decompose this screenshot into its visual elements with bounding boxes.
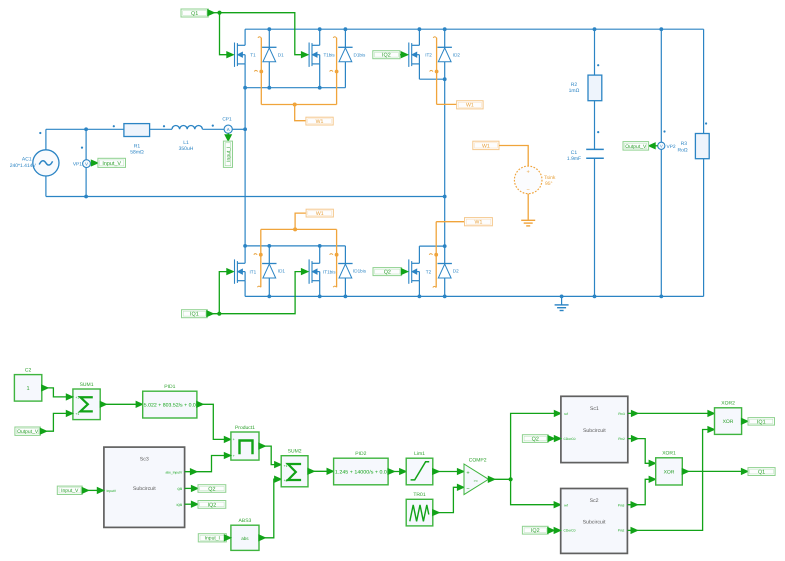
svg-text:W1: W1 <box>482 143 490 149</box>
svg-text:W1: W1 <box>475 220 483 226</box>
svg-text:W1: W1 <box>316 119 324 125</box>
svg-text:W1: W1 <box>316 211 324 217</box>
svg-text:T1bis: T1bis <box>324 53 336 58</box>
svg-text:Subcircuit: Subcircuit <box>583 519 606 525</box>
svg-text:+1: +1 <box>284 464 288 468</box>
svg-text:VP2: VP2 <box>667 144 676 150</box>
svg-text:Sc2: Sc2 <box>590 498 599 504</box>
svg-text:Q1: Q1 <box>758 469 765 475</box>
svg-text:Subcircuit: Subcircuit <box>133 486 156 492</box>
svg-text:ref: ref <box>564 503 568 507</box>
svg-text:Lim1: Lim1 <box>414 451 425 457</box>
svg-text:V: V <box>660 144 663 149</box>
svg-text:Pin3: Pin3 <box>618 412 625 416</box>
svg-text:ID1: ID1 <box>278 269 286 274</box>
svg-text:CDorC0: CDorC0 <box>564 437 576 441</box>
svg-text:T2: T2 <box>426 269 432 274</box>
svg-text:IQ1: IQ1 <box>190 312 199 318</box>
svg-text:+1: +1 <box>75 396 79 400</box>
svg-text:Subcircuit: Subcircuit <box>583 428 606 434</box>
svg-text:350uH: 350uH <box>179 146 194 152</box>
svg-text:abs_InputV: abs_InputV <box>166 470 183 474</box>
svg-text:240*1.414V: 240*1.414V <box>10 163 37 169</box>
svg-text:58mΩ: 58mΩ <box>130 150 144 156</box>
svg-text:RoΩ: RoΩ <box>677 147 687 153</box>
svg-text:Sc1: Sc1 <box>590 406 599 412</box>
svg-text:5.022 + 803.52/s + 0.0: 5.022 + 803.52/s + 0.0 <box>144 402 196 408</box>
svg-text:InputV: InputV <box>107 489 117 493</box>
svg-text:abs: abs <box>241 536 249 541</box>
svg-text:1.9mF: 1.9mF <box>567 156 581 162</box>
svg-text:Output_V: Output_V <box>17 429 39 435</box>
svg-text:L1: L1 <box>183 140 189 146</box>
svg-text:+1: +1 <box>284 478 288 482</box>
svg-text:IT2: IT2 <box>425 53 432 58</box>
svg-text:1: 1 <box>27 386 30 392</box>
svg-text:V: V <box>85 162 88 167</box>
svg-text:>=: >= <box>474 479 478 483</box>
svg-text:Input_V: Input_V <box>61 488 79 494</box>
svg-text:TR01: TR01 <box>413 492 425 498</box>
svg-text:PID2: PID2 <box>355 451 366 457</box>
svg-text:ID1bis: ID1bis <box>353 269 367 274</box>
svg-text:SUM1: SUM1 <box>80 382 94 388</box>
svg-text:PID1: PID1 <box>164 384 175 390</box>
svg-text:+: + <box>466 471 469 477</box>
svg-text:+1: +1 <box>75 412 79 416</box>
svg-text:Pin2: Pin2 <box>618 437 625 441</box>
svg-text:IQ2: IQ2 <box>208 502 217 508</box>
svg-text:+: + <box>527 170 530 176</box>
svg-text:T1: T1 <box>250 53 256 58</box>
svg-text:IT1bis: IT1bis <box>323 269 336 274</box>
svg-text:XOR2: XOR2 <box>721 401 735 407</box>
svg-text:1.245 + 14000/s + 0.0: 1.245 + 14000/s + 0.0 <box>335 469 387 475</box>
svg-text:IT1: IT1 <box>250 269 257 274</box>
svg-text:ID2: ID2 <box>453 52 461 57</box>
svg-text:D1bis: D1bis <box>354 52 366 57</box>
svg-text:CP1: CP1 <box>222 117 232 123</box>
svg-text:D2: D2 <box>453 269 459 274</box>
svg-text:Q1: Q1 <box>191 11 198 17</box>
svg-text:−: − <box>527 188 530 194</box>
svg-text:ref: ref <box>564 412 568 416</box>
svg-text:XOR: XOR <box>723 419 734 425</box>
svg-text:1mΩ: 1mΩ <box>569 88 580 94</box>
svg-text:IQ1: IQ1 <box>757 419 766 425</box>
svg-text:Pin2: Pin2 <box>618 529 625 533</box>
svg-text:Sc3: Sc3 <box>140 457 149 463</box>
svg-text:95°: 95° <box>545 181 553 187</box>
svg-text:W1: W1 <box>466 103 474 109</box>
svg-text:Product1: Product1 <box>235 425 255 431</box>
svg-text:+: + <box>233 454 235 458</box>
svg-text:−: − <box>466 487 469 493</box>
svg-text:AC1: AC1 <box>22 157 32 163</box>
svg-text:Q2: Q2 <box>208 486 215 492</box>
svg-text:CDorC0: CDorC0 <box>564 529 576 533</box>
svg-text:QB: QB <box>177 487 183 491</box>
svg-text:D1: D1 <box>278 52 284 57</box>
svg-text:Input_I: Input_I <box>205 536 220 542</box>
svg-text:XOR1: XOR1 <box>662 451 676 457</box>
svg-text:ABS3: ABS3 <box>239 518 252 524</box>
svg-text:Output_V: Output_V <box>625 144 647 150</box>
svg-text:XOR: XOR <box>664 469 675 475</box>
svg-text:IQB: IQB <box>177 503 183 507</box>
svg-text:C2: C2 <box>25 367 32 373</box>
svg-text:Tsink: Tsink <box>544 175 556 181</box>
svg-text:R2: R2 <box>571 82 578 88</box>
svg-text:Input_I: Input_I <box>226 147 232 162</box>
svg-text:Input_V: Input_V <box>102 161 121 167</box>
svg-text:R3: R3 <box>681 141 688 147</box>
svg-text:IQ2: IQ2 <box>382 53 391 59</box>
svg-text:C1: C1 <box>571 150 578 156</box>
svg-text:SUM2: SUM2 <box>288 449 302 455</box>
svg-text:VP1: VP1 <box>73 162 82 168</box>
svg-text:Pin3: Pin3 <box>618 503 625 507</box>
svg-text:COMP2: COMP2 <box>469 457 487 463</box>
svg-text:IQ2: IQ2 <box>531 528 540 534</box>
svg-text:Q2: Q2 <box>384 270 391 276</box>
svg-text:Q2: Q2 <box>532 436 539 442</box>
svg-text:A: A <box>227 127 230 132</box>
svg-text:+: + <box>233 438 235 442</box>
